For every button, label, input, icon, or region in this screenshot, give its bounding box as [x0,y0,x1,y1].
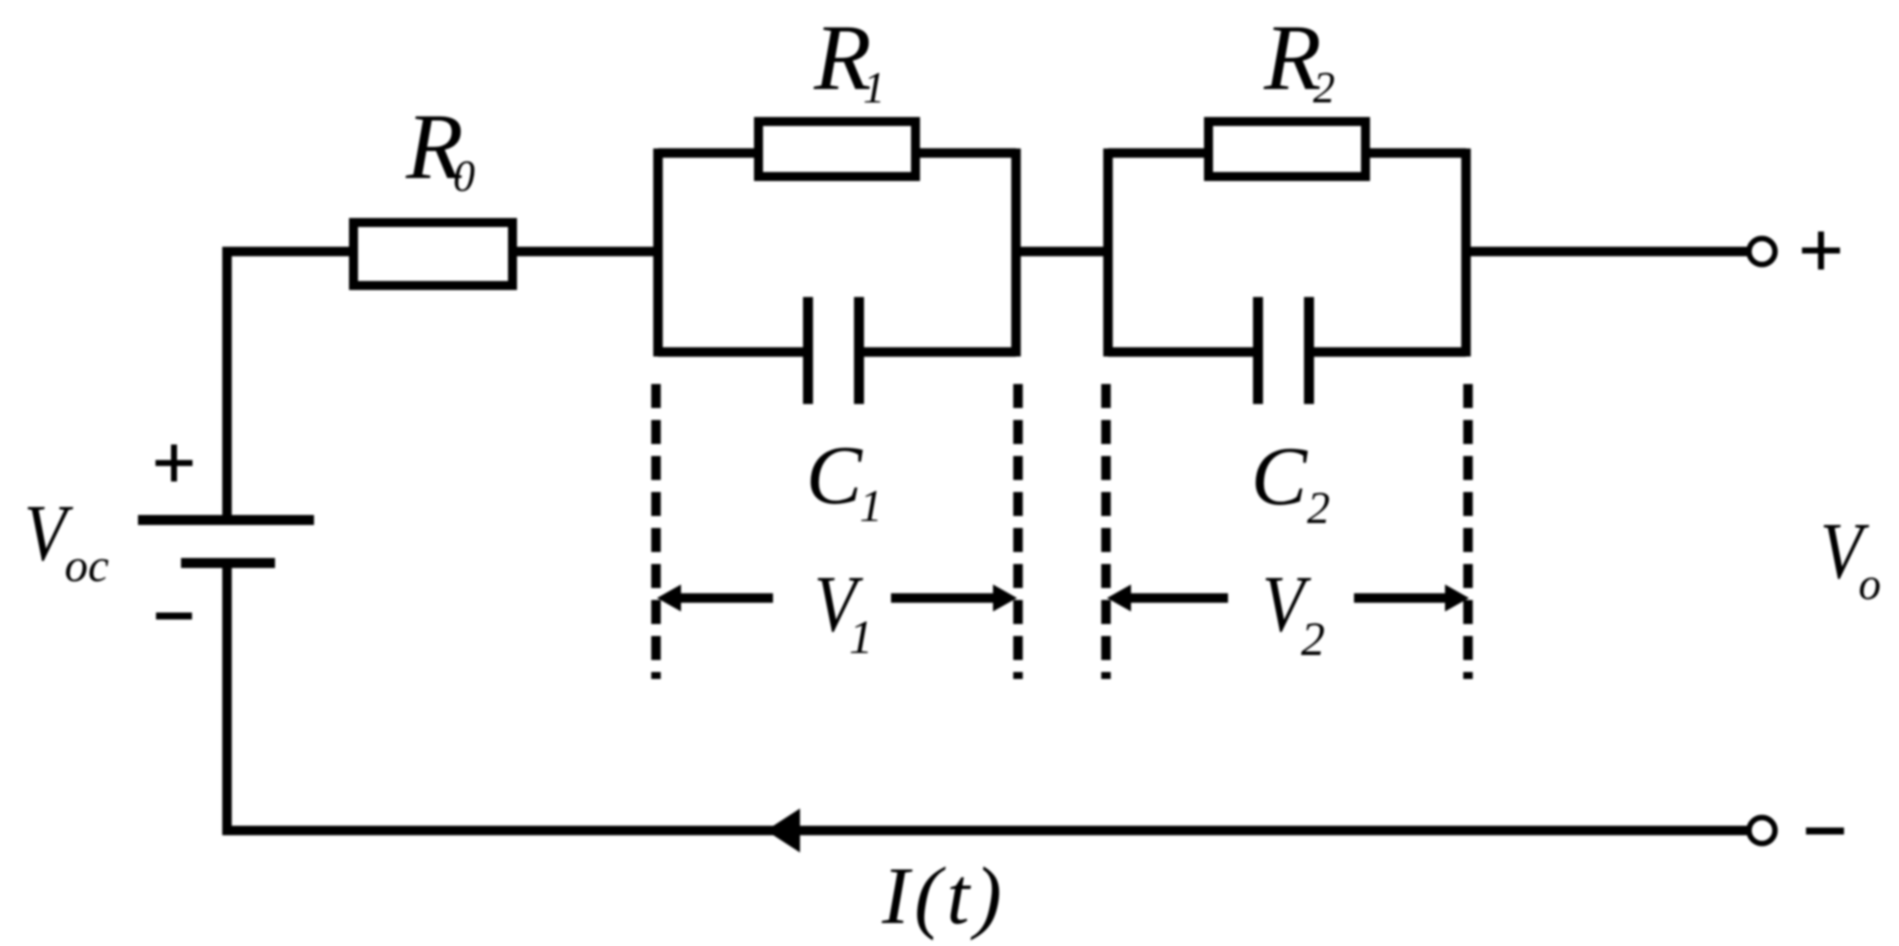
resistor R0 [354,223,513,286]
capacitor C1 left plate [803,297,813,404]
svg-text:2: 2 [1307,482,1330,533]
svg-text:C: C [806,429,863,522]
battery Voc bottom plate [181,558,275,568]
svg-text:I(t): I(t) [881,850,1007,941]
minus sign battery [156,613,192,620]
capacitor C1 right plate [854,297,864,404]
RC block 2: right vertical [1461,149,1471,357]
svg-text:C: C [1251,430,1308,523]
plus sign output terminal [1802,232,1840,270]
RC block 1: right vertical [1011,149,1021,357]
capacitor C2 right plate [1304,297,1314,404]
svg-text:2: 2 [1301,613,1325,666]
arrowhead V1 left [657,585,681,612]
resistor R2 [1209,122,1366,177]
RC block 1: top branch left [658,148,754,158]
dashed line V1 left [651,384,661,679]
wire: bottom rail to negative terminal [223,826,1750,836]
RC block 2: bottom branch left [1108,347,1253,357]
RC block 1: left vertical [653,149,663,357]
capacitor C2 left plate [1253,297,1263,404]
arrow shaft V2 right [1354,593,1446,603]
svg-text:0: 0 [453,152,475,201]
wire: R2 block to positive terminal [1466,247,1747,257]
node: negative output terminal circle [1749,818,1775,844]
RC block 1: bottom branch right [864,347,1016,357]
svg-text:1: 1 [849,611,873,664]
node: positive output terminal circle [1749,239,1775,265]
svg-text:o: o [1859,559,1882,609]
dashed line V1 right [1013,384,1023,679]
arrow shaft V1 left [679,593,773,603]
plus sign battery [156,445,193,482]
svg-text:2: 2 [1313,63,1335,112]
svg-text:oc: oc [65,540,110,592]
dashed line V2 left [1101,384,1111,679]
svg-text:1: 1 [863,63,885,112]
arrow shaft V2 left [1129,593,1228,603]
RC block 2: left vertical [1103,149,1113,357]
dashed line V2 right [1463,384,1473,679]
arrowhead V2 right [1445,585,1469,612]
wire: node between RC blocks [1016,247,1108,257]
arrowhead V1 right [993,585,1017,612]
minus sign output terminal [1806,828,1844,835]
RC block 1: bottom branch left [658,347,803,357]
RC block 2: bottom branch right [1314,347,1466,357]
RC block 2: top branch left [1108,148,1204,158]
arrowhead V2 left [1107,585,1131,612]
wire: battery top to R0 [227,252,349,516]
RC block 1: top branch right [920,148,1016,158]
battery Voc top plate [138,515,314,525]
wire: battery negative to bottom rail [222,563,232,835]
arrow shaft V1 right [891,593,994,603]
svg-text:1: 1 [860,480,883,531]
wire: R0 to R1 block [517,247,662,257]
RC block 2: top branch right [1370,148,1466,158]
arrowhead I(t) on bottom rail [766,809,800,853]
resistor R1 [759,122,916,177]
